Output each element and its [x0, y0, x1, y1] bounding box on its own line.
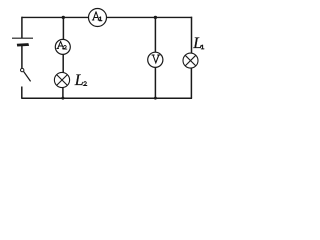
ammeter A2	[55, 39, 70, 54]
wire battery to switch	[21, 46, 23, 68]
svg-text:L: L	[74, 72, 84, 89]
lamp L2	[54, 72, 69, 87]
voltmeter V	[148, 52, 163, 67]
wire top right segment	[106, 16, 192, 18]
wire switch to bottom	[21, 87, 23, 99]
wire L2 to bottom	[62, 88, 64, 98]
wire left vertical (battery top)	[21, 17, 23, 38]
battery B1	[12, 38, 33, 46]
lamp L1	[183, 53, 198, 68]
wire below L1	[190, 68, 192, 98]
node junction top V	[154, 16, 157, 19]
label L2	[74, 72, 87, 89]
node junction bottom V	[154, 97, 157, 100]
wire V to bottom	[154, 67, 156, 98]
wire right vertical above L1	[191, 17, 193, 54]
wire top left segment	[22, 16, 89, 18]
label L1	[192, 35, 204, 52]
node junction top A2	[62, 16, 65, 19]
svg-text:L: L	[192, 35, 202, 52]
node junction bottom A2	[61, 97, 64, 100]
switch S1	[21, 68, 31, 81]
wire A2 to L2	[62, 54, 64, 72]
ammeter A1	[89, 9, 107, 27]
wire bottom	[21, 97, 192, 99]
wire V branch top	[154, 17, 156, 52]
wire A2 branch top	[62, 17, 64, 39]
